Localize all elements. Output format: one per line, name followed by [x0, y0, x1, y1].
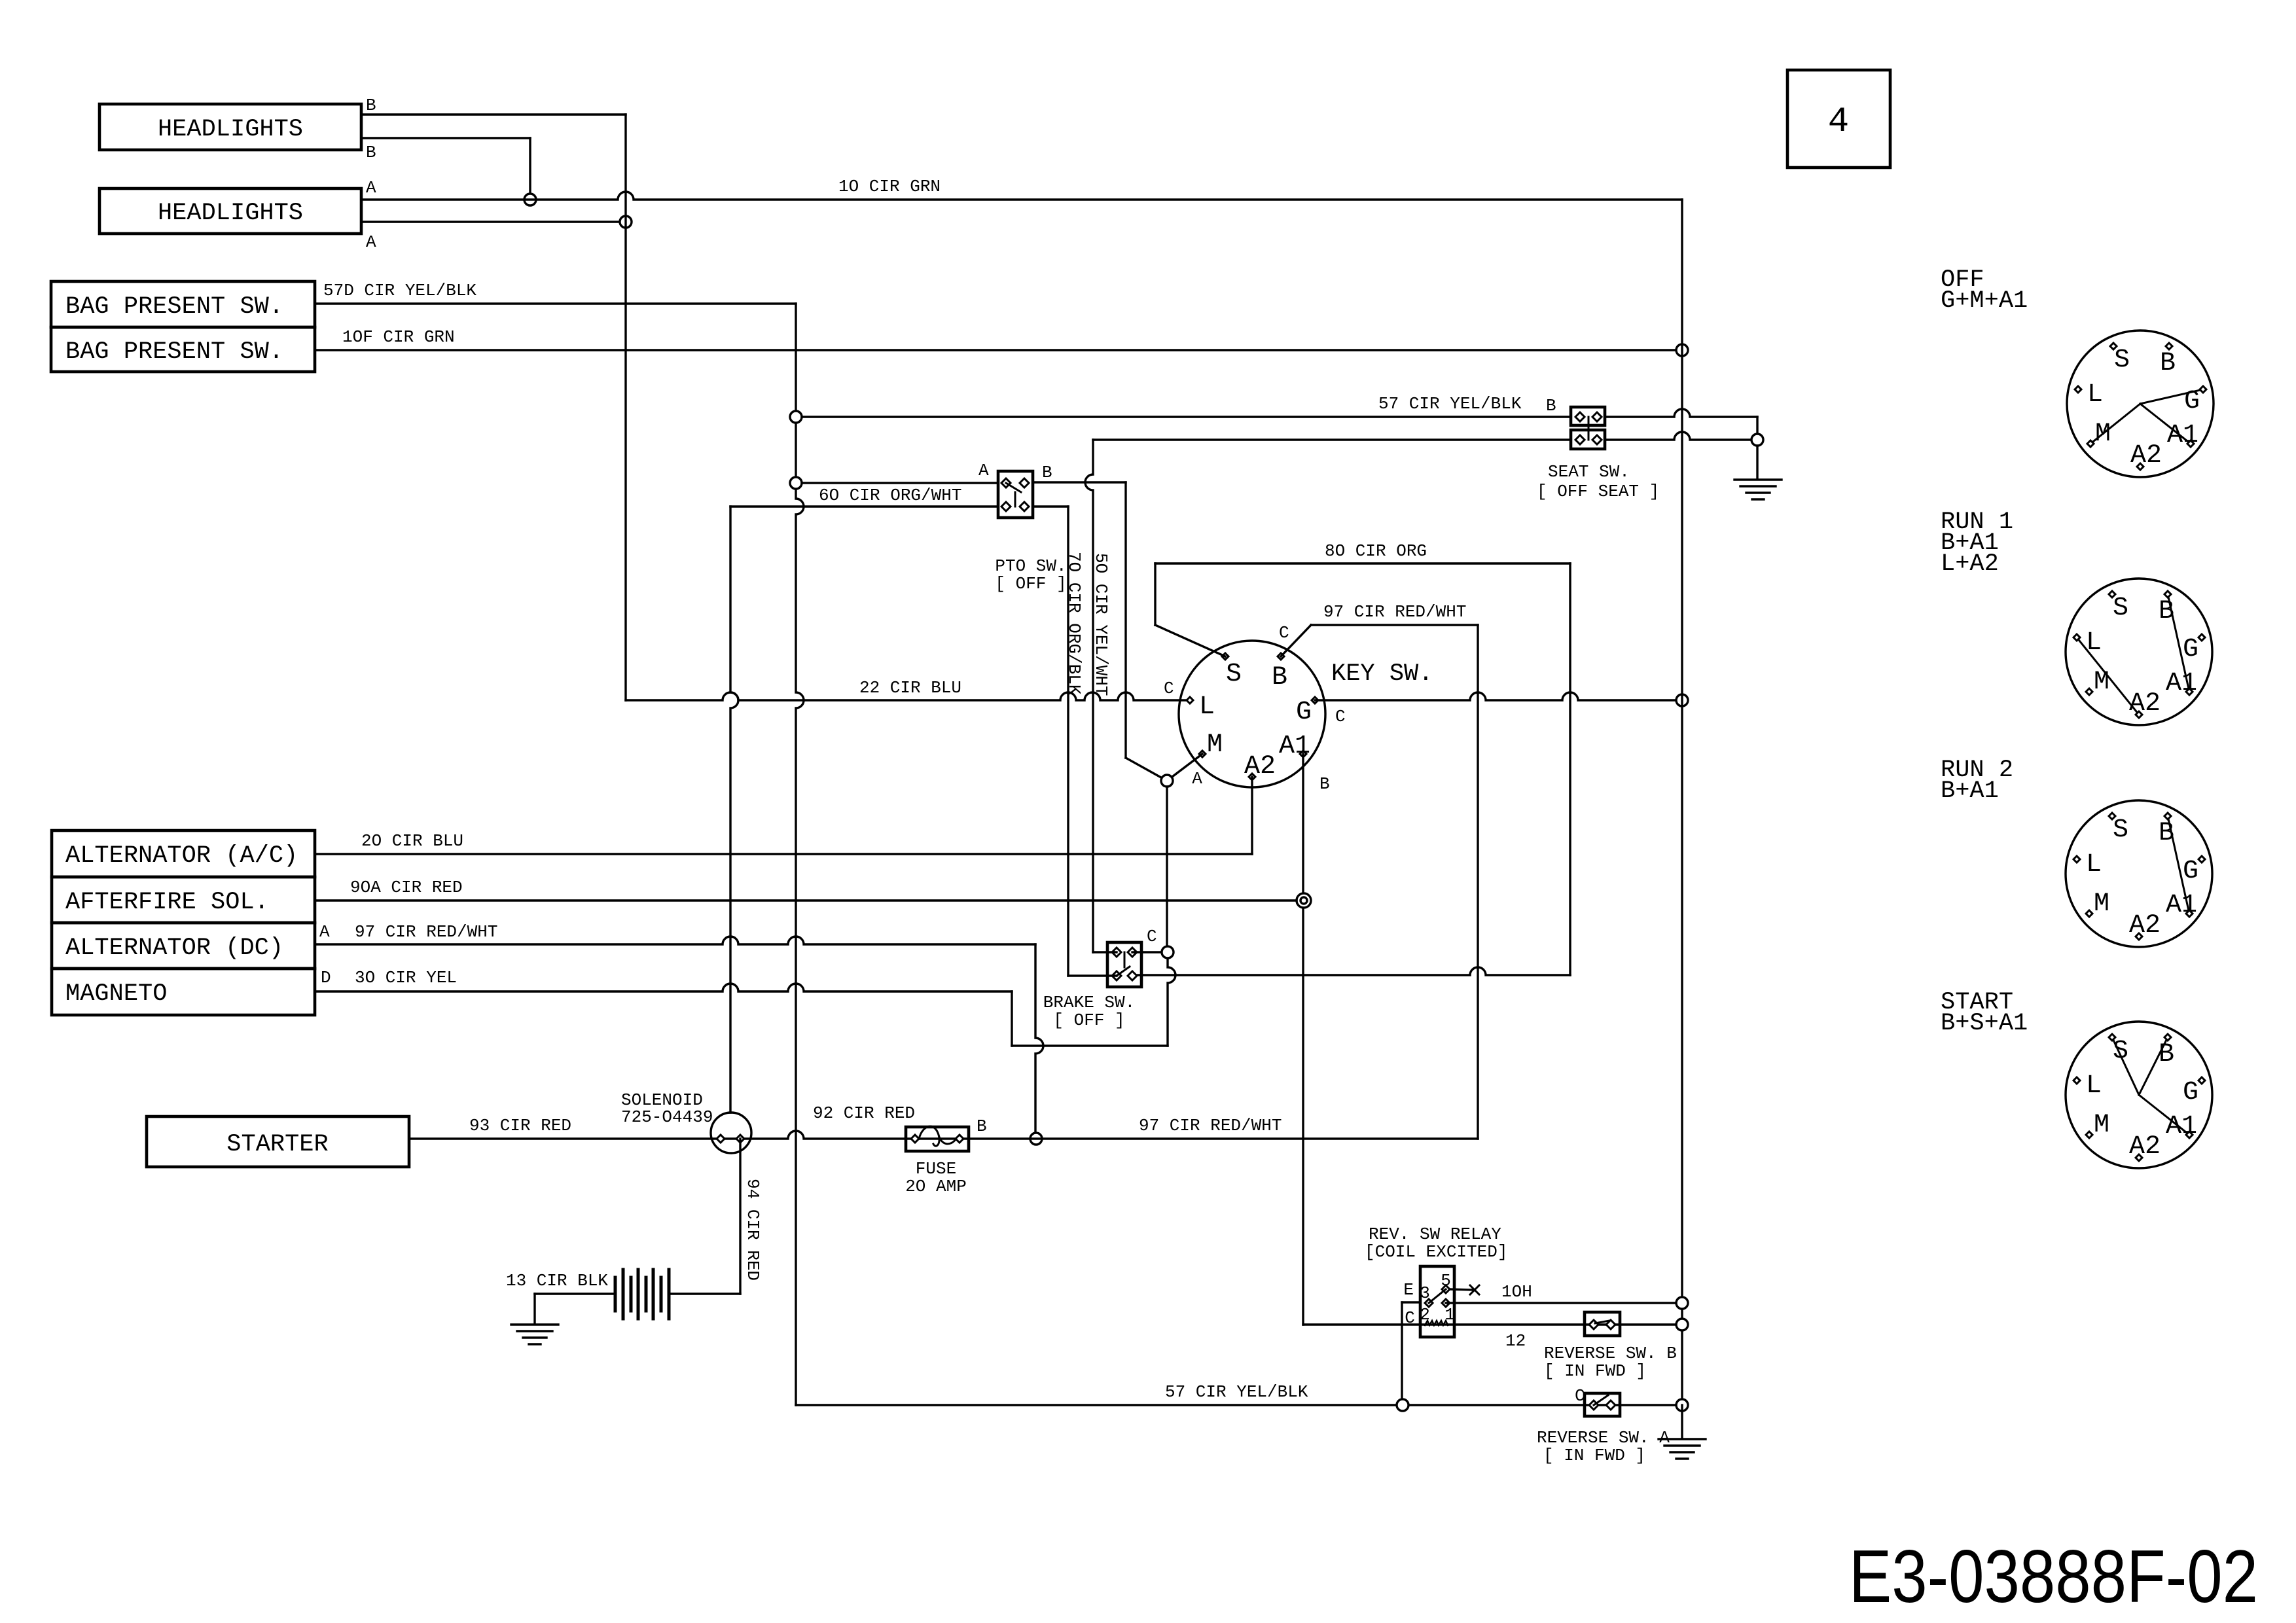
- wire pto lower-right to x1632: [1033, 505, 1068, 507]
- svg-text:C: C: [1575, 1386, 1585, 1406]
- svg-text:A: A: [978, 461, 989, 480]
- wire relay 10H output: [1446, 1302, 1676, 1304]
- svg-text:[COIL EXCITED]: [COIL EXCITED]: [1365, 1242, 1507, 1262]
- wire battery positive lead: [670, 1293, 740, 1294]
- svg-text:57 CIR YEL/BLK: 57 CIR YEL/BLK: [1165, 1382, 1308, 1402]
- svg-text:6O CIR ORG/WHT: 6O CIR ORG/WHT: [819, 486, 961, 505]
- node 10F joins right vertical: [1676, 344, 1688, 356]
- svg-text:7O CIR ORG/BLK: 7O CIR ORG/BLK: [1064, 552, 1084, 695]
- svg-text:SEAT SW.: SEAT SW.: [1548, 462, 1630, 482]
- wire 30 CIR YEL: [315, 984, 1012, 991]
- node 57 CIR YEL/BLK takeoff: [790, 411, 802, 423]
- svg-text:REV. SW RELAY: REV. SW RELAY: [1369, 1224, 1501, 1244]
- wire 80 CIR ORG down x2399: [1569, 563, 1571, 975]
- brake sw lever: [1117, 967, 1130, 976]
- wire vertical x1116 pto to solenoid: [730, 507, 738, 1113]
- pto lever: [1006, 483, 1021, 492]
- rev B lever: [1595, 1321, 1609, 1323]
- node G joins right vertical: [1676, 694, 1688, 706]
- seat switch lower box: [1571, 430, 1605, 449]
- wire headlight1 pin B lower: [361, 137, 530, 139]
- wire 60 CIR ORG/WHT to PTO A: [802, 482, 998, 484]
- headlight block 2 (lower HEADLIGHTS box): [99, 188, 361, 234]
- svg-text:S: S: [2114, 346, 2130, 375]
- key terminal G: [1312, 697, 1318, 704]
- svg-text:97 CIR RED/WHT: 97 CIR RED/WHT: [1323, 602, 1466, 622]
- key terminal L: [1187, 697, 1193, 704]
- wire pto B to x1720: [1033, 481, 1126, 483]
- svg-text:M: M: [2094, 668, 2109, 697]
- svg-text:B: B: [2160, 349, 2176, 378]
- svg-text:M: M: [2094, 1111, 2109, 1140]
- node A-wire joins vertical x956: [620, 216, 632, 228]
- svg-text:4: 4: [1828, 102, 1849, 142]
- wire diagonal x1720 to M node: [1126, 758, 1167, 781]
- svg-text:2O CIR BLU: 2O CIR BLU: [361, 831, 463, 851]
- svg-text:94 CIR RED: 94 CIR RED: [743, 1179, 762, 1281]
- svg-text:A2: A2: [2129, 689, 2161, 719]
- svg-text:G: G: [2183, 1078, 2198, 1107]
- key switch circle: [1179, 641, 1325, 787]
- svg-text:[ IN FWD ]: [ IN FWD ]: [1544, 1361, 1646, 1381]
- svg-text:B: B: [366, 143, 376, 162]
- relay armature lever: [1429, 1289, 1446, 1303]
- reverse switch B box: [1585, 1312, 1620, 1336]
- svg-text:G: G: [2183, 635, 2198, 664]
- svg-text:C: C: [1279, 623, 1289, 643]
- wire brake lower to x2399: [1132, 967, 1570, 975]
- svg-text:3O CIR YEL: 3O CIR YEL: [355, 968, 457, 988]
- wire to bottom-right ground: [1681, 1405, 1683, 1438]
- svg-text:KEY SW.: KEY SW.: [1331, 660, 1433, 688]
- svg-text:MAGNETO: MAGNETO: [65, 980, 167, 1008]
- svg-text:G+M+A1: G+M+A1: [1941, 287, 2028, 315]
- wire 50 YEL/WHT into brake upper-left: [1093, 951, 1117, 953]
- svg-text:REVERSE SW. B: REVERSE SW. B: [1544, 1344, 1677, 1363]
- brake sw upper contact bar: [1124, 952, 1126, 967]
- svg-text:57 CIR YEL/BLK: 57 CIR YEL/BLK: [1378, 394, 1522, 414]
- wire 13 CIR BLK: [535, 1293, 615, 1294]
- key position circle RUN 2: [2066, 800, 2212, 947]
- fuse element: [919, 1126, 956, 1146]
- svg-text:[ OFF SEAT ]: [ OFF SEAT ]: [1537, 482, 1659, 501]
- svg-text:STARTER: STARTER: [226, 1131, 328, 1158]
- node seat switch ground junction: [1751, 434, 1763, 446]
- wire A1 corner to relay: [1303, 1323, 1682, 1325]
- magneto box: [52, 969, 315, 1015]
- svg-text:12: 12: [1505, 1331, 1526, 1351]
- wire key A2 down: [1251, 777, 1253, 854]
- svg-text:ALTERNATOR (DC): ALTERNATOR (DC): [65, 935, 283, 962]
- bag present switch 1 box: [51, 281, 315, 327]
- svg-text:92 CIR RED: 92 CIR RED: [813, 1103, 915, 1123]
- pto terminal A: [1001, 478, 1011, 488]
- wire 22 CIR BLU: [626, 692, 1190, 700]
- node 12 joins right vertical: [1676, 1319, 1688, 1330]
- svg-text:S: S: [1226, 660, 1242, 689]
- wire 97 CIR RED/WHT (alt DC): [315, 936, 1035, 944]
- wire seat sw upper to right: [1605, 409, 1757, 417]
- wire relay C pin down: [1401, 1404, 1403, 1406]
- svg-text:E: E: [1403, 1280, 1414, 1300]
- svg-text:G: G: [1296, 698, 1312, 727]
- svg-text:B: B: [1546, 396, 1556, 416]
- relay pin 5 terminal: [1442, 1285, 1450, 1293]
- svg-text:L: L: [2086, 628, 2102, 658]
- rev B terminals: [1589, 1320, 1598, 1329]
- svg-text:A1: A1: [2166, 669, 2197, 698]
- pto lower contact bar: [1014, 492, 1016, 507]
- brake sw lower terminals: [1112, 971, 1121, 980]
- label 70 CIR ORG/BLK: [1064, 552, 1084, 695]
- svg-text:B+A1: B+A1: [1941, 777, 1999, 805]
- svg-text:B: B: [977, 1116, 987, 1136]
- svg-text:REVERSE SW. A: REVERSE SW. A: [1537, 1428, 1670, 1448]
- node 57 bottom right: [1676, 1399, 1688, 1411]
- seat sw upper terminals: [1575, 412, 1585, 421]
- pto lower terminals: [1001, 502, 1011, 511]
- wire right main vertical x2570: [1681, 200, 1683, 1405]
- svg-text:1OH: 1OH: [1501, 1282, 1532, 1302]
- svg-text:13 CIR BLK: 13 CIR BLK: [506, 1271, 608, 1291]
- relay pin 3 terminal: [1425, 1299, 1433, 1307]
- svg-text:PTO SW.: PTO SW.: [995, 556, 1066, 576]
- svg-text:97 CIR RED/WHT: 97 CIR RED/WHT: [1139, 1116, 1282, 1135]
- wire 97 CIR RED/WHT top: [1311, 624, 1478, 626]
- svg-text:C: C: [1405, 1308, 1415, 1328]
- wire node to ground: [1756, 446, 1758, 478]
- svg-text:FUSE: FUSE: [916, 1159, 956, 1179]
- wire seat sw lower to node: [1605, 432, 1751, 440]
- wire 30 YEL up x1784 to brake C node: [1168, 958, 1175, 1046]
- wire key G to right vertical: [1315, 692, 1676, 700]
- svg-text:22 CIR BLU: 22 CIR BLU: [859, 678, 961, 698]
- alternator (DC) box: [52, 923, 315, 969]
- svg-text:B: B: [1272, 663, 1287, 692]
- node M junction: [1161, 775, 1173, 787]
- key terminal A1: [1300, 751, 1306, 757]
- wire 90A CIR RED: [315, 899, 1297, 901]
- svg-text:57D CIR YEL/BLK: 57D CIR YEL/BLK: [323, 281, 476, 300]
- svg-text:A2: A2: [2130, 441, 2162, 471]
- wire 70 ORG/BLK into brake lower-left: [1068, 974, 1117, 976]
- wire 57 CIR YEL/BLK bottom: [796, 1404, 1676, 1406]
- wire relay pin5 to X: [1450, 1289, 1473, 1290]
- svg-text:B: B: [2159, 1040, 2174, 1069]
- wire 93-92-97 main red wire: [409, 1131, 1478, 1139]
- svg-text:C: C: [1335, 707, 1346, 726]
- svg-text:BAG PRESENT SW.: BAG PRESENT SW.: [65, 338, 283, 366]
- svg-text:BAG PRESENT SW.: BAG PRESENT SW.: [65, 293, 283, 321]
- svg-text:S: S: [2113, 594, 2128, 623]
- svg-text:[ OFF ]: [ OFF ]: [1053, 1010, 1124, 1030]
- relay box: [1420, 1266, 1454, 1337]
- wire 30 YEL across y1598: [1012, 1044, 1168, 1046]
- svg-text:E3-03888F-02: E3-03888F-02: [1849, 1535, 2258, 1618]
- key terminal S: [1222, 653, 1229, 660]
- svg-text:D: D: [321, 968, 331, 988]
- key terminal M: [1199, 751, 1206, 757]
- svg-text:A2: A2: [1244, 752, 1276, 781]
- key terminal B: [1278, 653, 1284, 660]
- svg-text:S: S: [2113, 1037, 2128, 1066]
- svg-text:L: L: [2087, 380, 2103, 410]
- fuse terminals: [911, 1135, 919, 1143]
- svg-text:3: 3: [1420, 1283, 1430, 1303]
- wire pto lower-left to solenoid top: [730, 505, 998, 507]
- reverse switch A box: [1585, 1393, 1620, 1416]
- wire headlight1-B down to node: [529, 138, 531, 200]
- key position circle START: [2066, 1022, 2212, 1168]
- svg-text:[ OFF ]: [ OFF ]: [995, 574, 1066, 594]
- ground (battery): [511, 1323, 558, 1325]
- key position circle OFF: [2067, 330, 2214, 477]
- svg-text:[ IN FWD ]: [ IN FWD ]: [1543, 1446, 1645, 1465]
- node brake C junction: [1162, 946, 1174, 958]
- svg-text:A1: A1: [2166, 891, 2197, 920]
- rev A lever: [1594, 1395, 1608, 1405]
- svg-text:C: C: [1147, 927, 1157, 946]
- relay NO terminal: [1442, 1299, 1450, 1307]
- node 10H joins right vertical: [1676, 1297, 1688, 1309]
- svg-text:M: M: [2095, 419, 2111, 449]
- alternator (A/C) box: [52, 830, 315, 877]
- wire S vertical x1765: [1154, 563, 1156, 625]
- wire S diagonal: [1155, 625, 1225, 656]
- svg-text:AFTERFIRE SOL.: AFTERFIRE SOL.: [65, 889, 269, 916]
- svg-text:B: B: [2159, 819, 2174, 848]
- solenoid circle: [711, 1113, 751, 1153]
- wire 57D CIR YEL/BLK: [315, 302, 796, 304]
- node on 10 CIR GRN at x810: [524, 194, 536, 205]
- headlight block 1 (upper HEADLIGHTS box): [99, 104, 361, 150]
- svg-text:9OA CIR RED: 9OA CIR RED: [350, 878, 463, 897]
- label 50 CIR YEL/WHT: [1091, 553, 1111, 696]
- svg-text:A: A: [366, 178, 376, 198]
- svg-text:L+A2: L+A2: [1941, 550, 1999, 578]
- svg-text:B+S+A1: B+S+A1: [1941, 1010, 2028, 1037]
- battery: [614, 1277, 617, 1311]
- relay coil: [1425, 1321, 1448, 1325]
- svg-text:2O AMP: 2O AMP: [905, 1177, 967, 1196]
- seat sw lower terminals: [1575, 435, 1585, 444]
- svg-text:G: G: [2184, 387, 2200, 416]
- key position circle RUN 1: [2066, 579, 2212, 725]
- svg-text:B: B: [1319, 774, 1330, 794]
- svg-text:A1: A1: [2166, 1112, 2197, 1141]
- svg-text:A1: A1: [1279, 732, 1310, 761]
- wire 50 CIR YEL/WHT vertical: [1085, 440, 1093, 952]
- key terminal A2: [1249, 774, 1255, 780]
- svg-text:A: A: [366, 232, 376, 252]
- wire solenoid to battery (94 CIR RED): [739, 1139, 741, 1294]
- svg-text:725-O4439: 725-O4439: [621, 1107, 713, 1127]
- wire 57 CIR YEL/BLK to seat sw: [802, 416, 1571, 418]
- fuse box: [906, 1127, 969, 1151]
- wire vertical x956 from B down to 22 CIR BLU: [624, 115, 626, 700]
- svg-text:B: B: [1042, 463, 1052, 482]
- svg-text:A2: A2: [2129, 1132, 2161, 1162]
- svg-text:5O CIR YEL/WHT: 5O CIR YEL/WHT: [1091, 553, 1111, 696]
- svg-text:5: 5: [1441, 1271, 1451, 1291]
- svg-text:A: A: [1192, 769, 1202, 789]
- svg-text:ALTERNATOR (A/C): ALTERNATOR (A/C): [65, 842, 298, 870]
- wire 97 DC vertical x1582: [1035, 944, 1043, 1139]
- label 94 CIR RED: [743, 1179, 762, 1281]
- svg-text:A: A: [319, 922, 330, 942]
- svg-text:A2: A2: [2129, 911, 2161, 940]
- svg-text:97 CIR RED/WHT: 97 CIR RED/WHT: [355, 922, 497, 942]
- wire M junction down to brake C node: [1166, 787, 1168, 946]
- svg-text:8O CIR ORG: 8O CIR ORG: [1325, 541, 1427, 561]
- wire vertical x1216 from 57D down to bottom 57 wire: [796, 304, 804, 1405]
- wire headlight2 pin A lower: [361, 221, 620, 223]
- wire key A1 down: [1302, 754, 1304, 1325]
- svg-text:S: S: [2113, 815, 2128, 845]
- wire 97 vertical x2258: [1477, 625, 1479, 1139]
- wire key M diagonal: [1167, 754, 1202, 781]
- ground (seat switch): [1734, 478, 1782, 480]
- wire seat lower to x1670: [1093, 438, 1571, 440]
- bag present switch 2 box: [51, 327, 315, 372]
- svg-text:L: L: [1199, 692, 1215, 722]
- wire 13 CIR BLK to ground: [533, 1294, 535, 1323]
- svg-text:HEADLIGHTS: HEADLIGHTS: [158, 116, 303, 143]
- wire seat sw drop to node: [1756, 417, 1758, 440]
- wire 30 YEL down x1546: [1011, 991, 1013, 1046]
- svg-text:L: L: [2086, 1071, 2102, 1101]
- brake switch box: [1107, 942, 1141, 987]
- pto switch box: [998, 471, 1033, 518]
- solenoid terminals: [717, 1135, 725, 1143]
- svg-text:HEADLIGHTS: HEADLIGHTS: [158, 200, 303, 227]
- svg-text:BRAKE SW.: BRAKE SW.: [1043, 993, 1135, 1012]
- node relay C joins 57: [1397, 1399, 1408, 1411]
- wire headlight1 pin B upper: [361, 113, 626, 115]
- afterfire solenoid box: [52, 877, 315, 923]
- pto terminal B: [1020, 478, 1029, 488]
- starter box: [147, 1116, 409, 1167]
- svg-text:M: M: [2094, 889, 2109, 919]
- svg-text:B: B: [366, 96, 376, 115]
- rev A terminals: [1589, 1400, 1598, 1410]
- wire x1720 vertical pto B to M junction: [1124, 482, 1126, 758]
- wire 80 CIR ORG: [1155, 562, 1570, 564]
- wire 10 CIR GRN: [361, 192, 1682, 200]
- seat sw contact bar: [1588, 417, 1590, 440]
- svg-text:93 CIR RED: 93 CIR RED: [469, 1116, 571, 1135]
- svg-text:C: C: [1164, 679, 1174, 698]
- node 60 CIR ORG/WHT takeoff: [790, 477, 802, 489]
- wire 70 CIR ORG/BLK vertical: [1067, 507, 1069, 976]
- seat switch upper box: [1571, 407, 1605, 425]
- wire 20 CIR BLU: [315, 853, 1252, 855]
- relay connector notch: [1402, 1301, 1420, 1303]
- svg-text:B: B: [2159, 597, 2174, 626]
- svg-text:M: M: [1207, 730, 1223, 760]
- wire brake C to node: [1132, 951, 1162, 953]
- node A1 connector (double circle): [1297, 893, 1311, 908]
- ground (reverse switch A): [1659, 1438, 1706, 1440]
- svg-text:A1: A1: [2167, 421, 2198, 450]
- svg-text:L: L: [2086, 850, 2102, 880]
- node 97 joins fuse wire: [1030, 1133, 1042, 1145]
- wire 10F CIR GRN: [315, 349, 1676, 351]
- svg-text:1OF CIR GRN: 1OF CIR GRN: [342, 327, 455, 347]
- svg-text:G: G: [2183, 857, 2198, 886]
- svg-text:1O CIR GRN: 1O CIR GRN: [838, 177, 941, 196]
- sheet number box 4: [1787, 70, 1890, 168]
- brake sw upper terminals: [1112, 948, 1121, 957]
- X mark (no connection): [1470, 1285, 1479, 1294]
- wire B diagonal: [1281, 625, 1311, 656]
